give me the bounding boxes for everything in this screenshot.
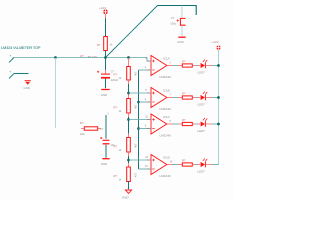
svg-text:C?: C?: [111, 69, 115, 73]
stub down at right: [195, 5, 197, 15]
output pin wire IC1D: [167, 164, 173, 166]
svg-text:GND: GND: [101, 93, 107, 97]
wire stub down pale: [55, 58, 57, 128]
svg-text:C?: C?: [100, 127, 104, 131]
ladder top pin: [128, 58, 130, 67]
wire resistor to LED (IC1B row): [192, 97, 195, 99]
svg-text:LED?: LED?: [198, 71, 206, 75]
main horizontal wire: [56, 57, 148, 59]
op-amp IC1C: [145, 114, 172, 137]
ladder resistor 3: [127, 138, 131, 153]
svg-text:10k: 10k: [133, 105, 137, 110]
series resistor R? (IC1C row): [182, 122, 192, 125]
svg-text:LM324 VU-METER TOP: LM324 VU-METER TOP: [1, 45, 41, 50]
wire resistor to LED (IC1D row): [192, 164, 195, 166]
svg-text:+12V: +12V: [212, 40, 220, 44]
svg-text:R?: R?: [182, 91, 186, 95]
svg-text:IC1A: IC1A: [163, 57, 170, 61]
wire LED to rail (IC1D row): [212, 164, 219, 166]
wire LED to rail (IC1C row): [212, 123, 219, 125]
svg-text:GND: GND: [101, 162, 107, 166]
ladder wire segment 3-4: [128, 152, 130, 156]
svg-text:10k: 10k: [133, 72, 137, 77]
svg-text:IC1B: IC1B: [163, 89, 170, 93]
wire LED to rail (IC1B row): [212, 97, 219, 99]
svg-text:TP-1/2V: TP-1/2V: [88, 55, 98, 59]
diagonal wire: [106, 6, 158, 58]
tap 2: [127, 118, 130, 121]
LED? (IC1A row): [198, 65, 201, 67]
floating resistor: [80, 121, 101, 136]
capacitor C1: [180, 18, 185, 25]
connector pin 1: [9, 58, 14, 63]
gnd: [101, 89, 109, 91]
output pin wire IC1A: [167, 65, 173, 67]
jog to IC1A in+: [147, 58, 151, 62]
tap 3: [127, 159, 130, 162]
signal vertical wire: [138, 70, 140, 169]
op-amp IC1A: [145, 56, 172, 79]
svg-text:GND: GND: [177, 40, 183, 44]
rail: [218, 50, 220, 165]
svg-text:GND: GND: [24, 86, 30, 90]
tap 1: [127, 92, 130, 95]
svg-text:R?: R?: [182, 158, 186, 162]
svg-text:R?: R?: [114, 106, 118, 110]
svg-text:R?: R?: [182, 59, 186, 63]
ladder resistor 4: [127, 167, 131, 182]
svg-text:LED?: LED?: [198, 170, 206, 174]
resistor R1: [104, 37, 108, 51]
svg-text:LED?: LED?: [198, 129, 206, 133]
svg-text:LM324N: LM324N: [160, 174, 171, 178]
svg-text:R?: R?: [80, 121, 84, 125]
capacitor C2 at node: [97, 58, 118, 98]
series resistor R? (IC1B row): [182, 96, 192, 99]
series resistor R? (IC1D row): [182, 163, 192, 166]
junction: [54, 56, 57, 59]
svg-text:IC1C: IC1C: [163, 115, 171, 119]
svg-text:IC1D: IC1D: [163, 156, 171, 160]
wire pin 2: [14, 73, 29, 75]
svg-text:10k: 10k: [133, 173, 137, 178]
svg-text:100u: 100u: [170, 22, 176, 26]
top wire: [158, 5, 197, 7]
rail junction: [217, 64, 220, 67]
op-amp IC1B: [145, 88, 172, 111]
floating capacitor branch: [100, 112, 115, 166]
wire resistor to LED (IC1A row): [192, 65, 195, 67]
svg-text:LM324N: LM324N: [160, 107, 171, 111]
LED? (IC1C row): [198, 123, 201, 125]
wire LED to rail (IC1A row): [212, 65, 219, 67]
svg-text:R?: R?: [97, 43, 101, 47]
ladder resistor 2: [127, 99, 131, 114]
wire resistor to LED (IC1C row): [192, 123, 195, 125]
svg-text:R?: R?: [114, 174, 118, 178]
LED? (IC1D row): [198, 164, 201, 166]
wire C1 to gnd: [181, 26, 183, 37]
op-amp IC1D: [145, 155, 173, 178]
wire to R1: [105, 14, 107, 18]
output pin wire IC1C: [167, 123, 173, 125]
svg-text:GND: GND: [122, 195, 128, 199]
svg-text:LM324N: LM324N: [160, 133, 171, 137]
wire R1 to node: [105, 51, 107, 58]
svg-text:C?: C?: [171, 16, 175, 20]
wire input net: [13, 57, 56, 59]
branch down to C1: [181, 6, 183, 18]
svg-text:R?: R?: [182, 118, 186, 122]
LED? (IC1B row): [198, 97, 201, 99]
svg-text:10u: 10u: [110, 143, 115, 147]
connector pin 2: [9, 74, 14, 79]
output pin wire IC1B: [167, 97, 173, 99]
svg-text:+12V: +12V: [99, 6, 107, 10]
gnd under ladder: [125, 190, 131, 193]
svg-text:10k: 10k: [133, 144, 137, 149]
gnd: [102, 158, 109, 160]
series resistor R? (IC1A row): [182, 64, 192, 67]
rail junction: [217, 123, 220, 126]
signal stubs: [139, 69, 151, 71]
ladder wire segment 2-3: [128, 113, 130, 117]
ladder resistor 1: [127, 67, 131, 81]
signal dots: [137, 101, 140, 104]
svg-text:LED?: LED?: [198, 103, 206, 107]
svg-text:R?: R?: [114, 73, 118, 77]
wire to gnd: [128, 182, 130, 190]
rail junction: [217, 96, 220, 99]
ladder wire segment 1-2: [128, 80, 130, 84]
gnd under C1: [178, 36, 185, 38]
svg-text:220uF: 220uF: [111, 78, 119, 82]
ground at connector: [25, 80, 31, 82]
svg-text:10k: 10k: [80, 132, 85, 136]
svg-text:LM324N: LM324N: [160, 75, 171, 79]
